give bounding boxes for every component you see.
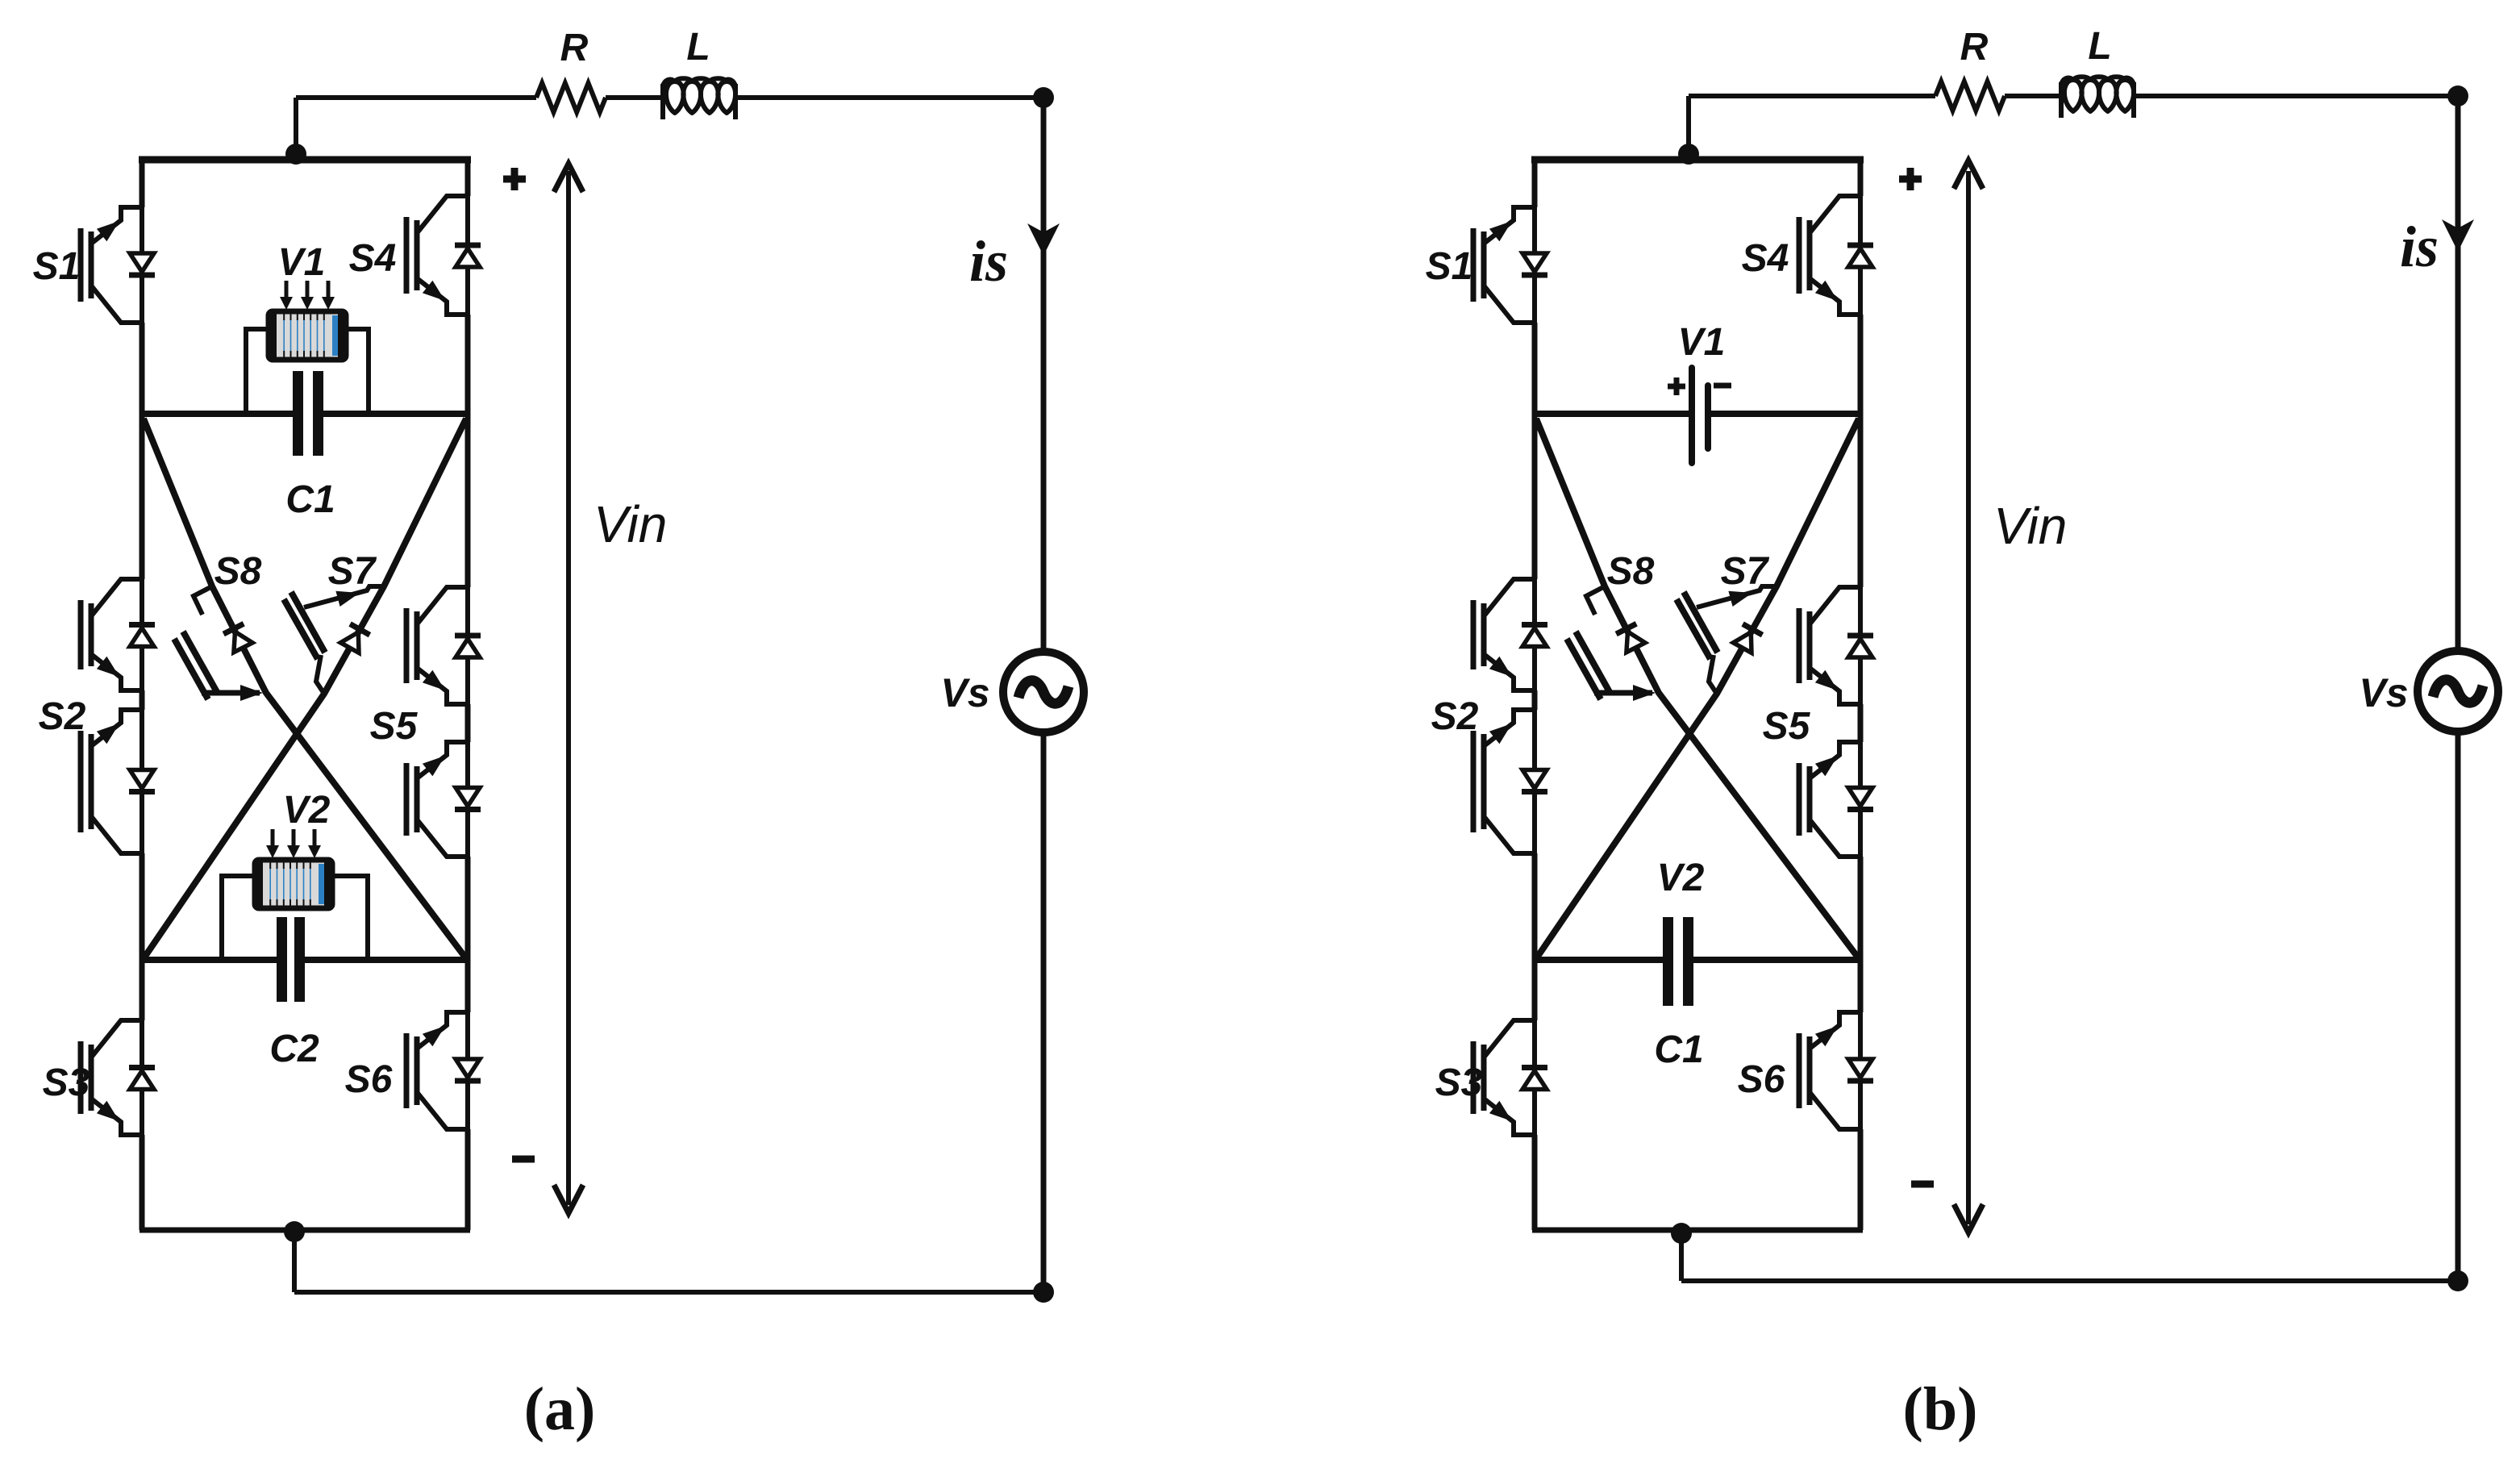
svg-text:S3: S3	[43, 1061, 90, 1104]
wire stub from converter to RL rail with junction (circuit b)	[1686, 96, 1691, 161]
svg-text:S4: S4	[1742, 237, 1789, 280]
caption (a)	[524, 1375, 596, 1443]
capacitor C1 (circuit a)	[293, 371, 323, 456]
minus sign of V1 (circuit b)	[1714, 383, 1731, 389]
transistor S7 IGBT with diode on cross line (circuit b)	[1677, 586, 1776, 694]
plus sign of V1 (circuit b)	[1668, 377, 1685, 395]
svg-text:S2: S2	[1431, 695, 1479, 738]
label S6 (circuit a)	[345, 1058, 393, 1101]
current arrow is (circuit b)	[2442, 219, 2474, 252]
svg-text:is: is	[969, 229, 1008, 294]
transistor S8 IGBT with diode on cross line (circuit b)	[1567, 586, 1656, 701]
svg-text:S5: S5	[370, 705, 419, 748]
wire from L to top right corner (circuit a)	[735, 95, 1043, 100]
transistor S1 IGBT with diode (circuit b)	[1473, 207, 1547, 323]
photovoltaic source V1 panel (circuit a)	[246, 311, 369, 414]
label S2 (circuit a)	[39, 695, 86, 738]
current arrow is (circuit a)	[1027, 223, 1060, 256]
svg-text:Vin: Vin	[594, 495, 667, 553]
label S5 (circuit b)	[1763, 705, 1811, 748]
wire mid bus (circuit a)	[142, 411, 468, 417]
transistor S5 lower IGBT with diode (circuit a)	[406, 742, 481, 857]
transistor S5 upper IGBT with diode (circuit b)	[1799, 587, 1873, 704]
svg-text:is: is	[2400, 215, 2439, 279]
transistor S2 lower IGBT with diode (circuit b)	[1473, 710, 1547, 853]
svg-text:S8: S8	[1607, 550, 1655, 593]
wire from L to top right corner (circuit b)	[2134, 94, 2458, 98]
label C1 (circuit a)	[285, 478, 335, 521]
wire diagonal cross line A (circuit b)	[1536, 419, 1858, 957]
svg-text:C2: C2	[269, 1028, 319, 1070]
wire right vertical lower (circuit b)	[2455, 732, 2461, 1281]
wire right vertical upper (circuit b)	[2455, 96, 2461, 651]
label S8 (circuit a)	[215, 550, 262, 593]
transistor S2 lower IGBT with diode (circuit a)	[81, 710, 155, 853]
label C1 (circuit b)	[1654, 1028, 1703, 1071]
wire bottom rail of converter (circuit a)	[140, 1228, 470, 1233]
wire between R and L (circuit a)	[606, 95, 663, 100]
wire RL rail left part (circuit a)	[296, 95, 536, 100]
irradiance arrows above V2 (circuit a)	[266, 829, 321, 858]
node bottom junction dot (circuit b)	[1671, 1223, 1692, 1244]
wire between R and L (circuit b)	[2005, 94, 2061, 98]
label S1 (circuit a)	[33, 245, 81, 288]
label R (circuit a)	[560, 27, 589, 69]
label Vin (circuit b)	[1993, 497, 2067, 555]
wire diagonal cross line B (circuit a)	[144, 419, 466, 957]
inductor L (circuit a)	[663, 78, 735, 119]
wire diagonal cross line B (circuit b)	[1537, 419, 1859, 957]
svg-text:S7: S7	[328, 550, 377, 593]
wire bottom rail of converter (circuit b)	[1532, 1228, 1863, 1233]
svg-text:S8: S8	[215, 550, 262, 593]
wire right vertical lower (circuit a)	[1041, 732, 1047, 1292]
wire lower bus (circuit a)	[142, 957, 468, 963]
svg-text:(b): (b)	[1903, 1375, 1978, 1443]
wire left edge segments (circuit b)	[1532, 160, 1538, 1230]
photovoltaic source V2 panel (circuit a)	[222, 860, 368, 960]
svg-text:V1: V1	[278, 241, 326, 284]
svg-text:S1: S1	[33, 245, 81, 288]
transistor S4 IGBT with diode (circuit a)	[406, 196, 481, 315]
node junction dot on top rail (circuit a)	[285, 144, 306, 165]
wire right edge segments (circuit b)	[1858, 160, 1864, 1230]
label S6 (circuit b)	[1738, 1058, 1785, 1101]
wire bottom return (circuit a)	[294, 1232, 1043, 1292]
label V2 (circuit b)	[1657, 857, 1705, 899]
transistor S3 IGBT with diode (circuit b)	[1473, 1020, 1547, 1135]
transistor S6 IGBT with diode (circuit a)	[406, 1012, 481, 1129]
svg-text:R: R	[560, 27, 589, 69]
capacitor C1 (circuit b)	[1663, 917, 1693, 1006]
wire lower bus (circuit b)	[1535, 957, 1860, 963]
transistor S2 upper IGBT with diode (circuit a)	[81, 579, 155, 690]
svg-text:S5: S5	[1763, 705, 1811, 748]
node bottom right junction dot (circuit a)	[1033, 1282, 1054, 1303]
plus sign of Vin (circuit a)	[503, 168, 526, 190]
label S4 (circuit b)	[1742, 237, 1789, 280]
svg-text:S7: S7	[1721, 550, 1770, 593]
label S1 (circuit b)	[1426, 245, 1473, 288]
transistor S7 IGBT with diode on cross line (circuit a)	[284, 586, 384, 694]
label V1 (circuit a)	[278, 241, 326, 284]
transistor S6 IGBT with diode (circuit b)	[1799, 1012, 1873, 1129]
wire diagonal cross line A (circuit a)	[144, 419, 465, 957]
wire left edge segments (circuit a)	[140, 160, 145, 1230]
svg-text:C1: C1	[285, 478, 335, 521]
wire right edge segments (circuit a)	[465, 160, 471, 1230]
svg-text:V1: V1	[1678, 321, 1726, 364]
svg-text:V2: V2	[1657, 857, 1705, 899]
node junction dot on top rail (circuit b)	[1678, 144, 1699, 165]
label S5 (circuit a)	[370, 705, 419, 748]
label V2 (circuit a)	[283, 789, 331, 832]
svg-text:L: L	[2088, 25, 2111, 68]
label S2 (circuit b)	[1431, 695, 1479, 738]
transistor S8 IGBT with diode on cross line (circuit a)	[174, 586, 263, 701]
minus sign of Vin (circuit a)	[512, 1156, 535, 1163]
transistor S5 upper IGBT with diode (circuit a)	[406, 587, 481, 704]
irradiance arrows above V1 (circuit a)	[280, 281, 335, 310]
svg-text:S6: S6	[345, 1058, 393, 1101]
svg-text:R: R	[1960, 26, 1989, 69]
label S4 (circuit a)	[349, 237, 397, 280]
wire RL rail left part (circuit b)	[1689, 94, 1935, 98]
svg-text:S1: S1	[1426, 245, 1473, 288]
svg-text:L: L	[686, 26, 710, 69]
svg-text:Vs: Vs	[2359, 670, 2408, 715]
label Vin (circuit a)	[594, 495, 667, 553]
svg-text:S6: S6	[1738, 1058, 1785, 1101]
resistor R (circuit b)	[1935, 81, 2005, 111]
wire stub from converter to RL rail with junction (circuit a)	[294, 98, 298, 161]
svg-text:S2: S2	[39, 695, 86, 738]
svg-text:(a): (a)	[524, 1375, 596, 1443]
svg-text:S4: S4	[349, 237, 397, 280]
label L (circuit a)	[686, 26, 710, 69]
caption (b)	[1903, 1375, 1978, 1443]
minus sign of Vin (circuit b)	[1911, 1181, 1934, 1188]
svg-text:C1: C1	[1654, 1028, 1703, 1071]
node bottom junction dot (circuit a)	[284, 1221, 305, 1242]
wire top rail of converter (circuit a)	[139, 156, 471, 164]
wire bottom return (circuit b)	[1681, 1233, 2458, 1281]
svg-text:V2: V2	[283, 789, 331, 832]
label is (circuit b)	[2400, 215, 2439, 279]
transistor S5 lower IGBT with diode (circuit b)	[1799, 742, 1873, 857]
label is (circuit a)	[969, 229, 1008, 294]
svg-text:Vin: Vin	[1993, 497, 2067, 555]
label V1 (circuit b)	[1678, 321, 1726, 364]
label L (circuit b)	[2088, 25, 2111, 68]
label S8 (circuit b)	[1607, 550, 1655, 593]
inductor L (circuit b)	[2061, 77, 2134, 118]
wire mid bus (circuit b)	[1535, 411, 1860, 417]
label Vs (circuit a)	[940, 670, 989, 715]
label S7 (circuit a)	[328, 550, 377, 593]
label R (circuit b)	[1960, 26, 1989, 69]
resistor R (circuit a)	[536, 83, 606, 112]
label S3 (circuit b)	[1435, 1061, 1483, 1104]
node top right junction dot (circuit b)	[2447, 85, 2468, 106]
battery source V1 (circuit b)	[1692, 368, 1708, 463]
node top right junction dot (circuit a)	[1033, 87, 1054, 108]
label S3 (circuit a)	[43, 1061, 90, 1104]
wire top rail of converter (circuit b)	[1531, 156, 1864, 164]
voltage arrow Vin (circuit a)	[554, 164, 583, 1213]
plus sign of Vin (circuit b)	[1899, 168, 1922, 190]
transistor S3 IGBT with diode (circuit a)	[81, 1020, 155, 1135]
source Vs AC (circuit b)	[2418, 651, 2498, 732]
capacitor C2 (circuit a)	[277, 917, 305, 1002]
source Vs AC (circuit a)	[1003, 652, 1084, 732]
voltage arrow Vin (circuit b)	[1954, 161, 1983, 1232]
transistor S2 upper IGBT with diode (circuit b)	[1473, 579, 1547, 690]
label C2 (circuit a)	[269, 1028, 319, 1070]
transistor S1 IGBT with diode (circuit a)	[81, 207, 155, 323]
svg-text:S3: S3	[1435, 1061, 1483, 1104]
label Vs (circuit b)	[2359, 670, 2408, 715]
node bottom right junction dot (circuit b)	[2447, 1270, 2468, 1291]
wire right vertical upper (circuit a)	[1041, 98, 1047, 652]
transistor S4 IGBT with diode (circuit b)	[1799, 196, 1873, 315]
label S7 (circuit b)	[1721, 550, 1770, 593]
svg-text:Vs: Vs	[940, 670, 989, 715]
